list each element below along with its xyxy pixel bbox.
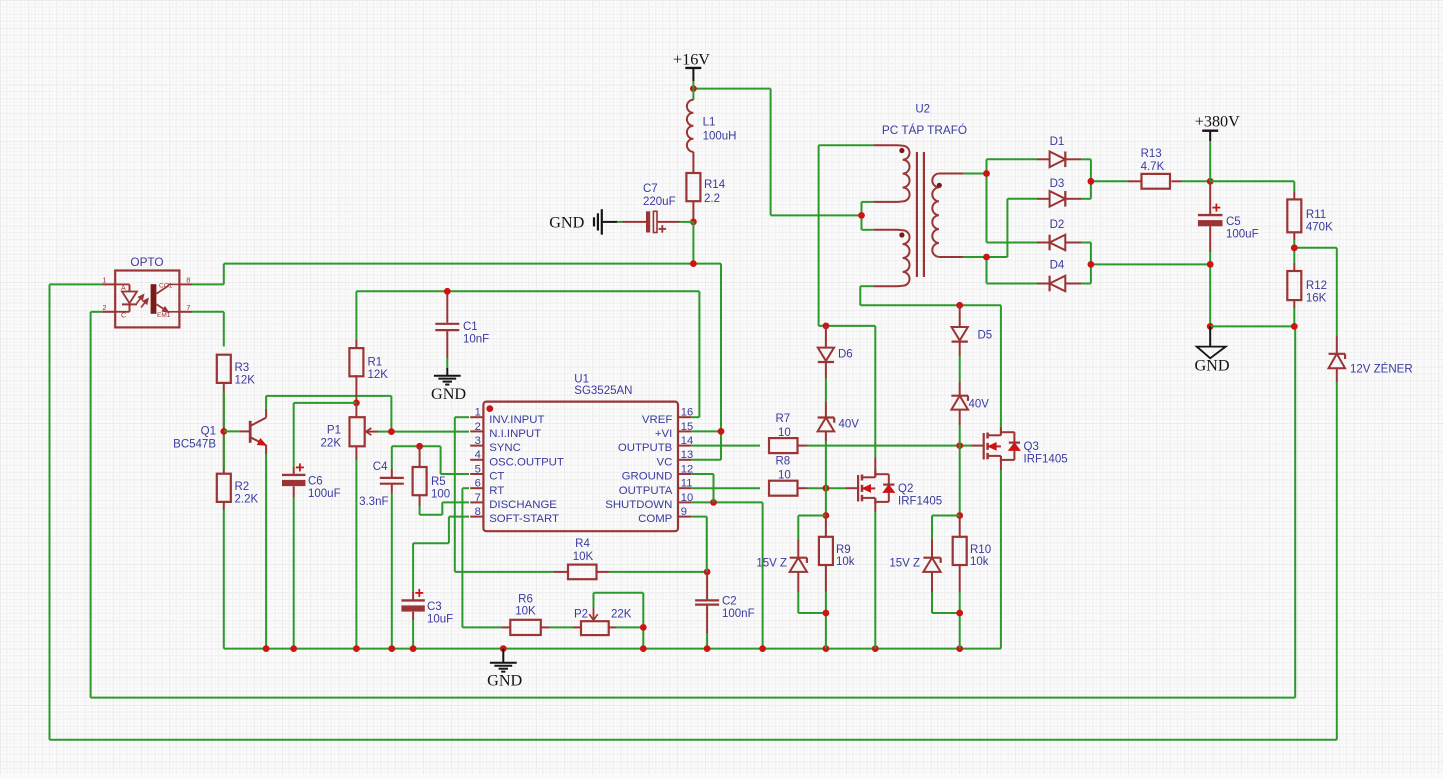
- node +16V: [690, 85, 697, 92]
- transistor Q3 IRF1405: [984, 427, 1068, 465]
- svg-text:OUTPUTA: OUTPUTA: [619, 485, 673, 497]
- capacitor C6: [282, 463, 341, 500]
- wire: [692, 222, 694, 264]
- node P2 right: [640, 624, 647, 631]
- pin 2 N.I.INPUT: [470, 421, 541, 440]
- svg-text:P1: P1: [327, 425, 341, 437]
- svg-text:GND: GND: [431, 385, 466, 403]
- diode D2: [1037, 219, 1081, 250]
- wire: [939, 199, 1037, 284]
- svg-text:2.2: 2.2: [704, 193, 720, 205]
- svg-text:PC TÁP TRAFÓ: PC TÁP TRAFÓ: [882, 123, 967, 137]
- node C5 bottom: [1207, 261, 1214, 268]
- svg-text:+380V: +380V: [1195, 113, 1240, 131]
- svg-text:R12: R12: [1306, 280, 1327, 292]
- svg-text:IRF1405: IRF1405: [898, 496, 942, 508]
- resistor R13: [1128, 148, 1170, 189]
- pin 14 OUTPUTB: [618, 435, 693, 454]
- pin 11 OUTPUTA: [619, 478, 693, 497]
- pin 12 GROUND: [622, 463, 694, 482]
- wire: [798, 487, 859, 489]
- node output gnd: [1207, 323, 1214, 330]
- svg-text:R5: R5: [431, 476, 446, 488]
- pin 6 RT: [470, 478, 504, 497]
- svg-text:A: A: [121, 285, 126, 292]
- svg-text:D4: D4: [1050, 260, 1065, 272]
- svg-text:N.I.INPUT: N.I.INPUT: [489, 428, 541, 440]
- svg-text:R11: R11: [1306, 209, 1326, 221]
- svg-text:DISCHANGE: DISCHANGE: [489, 499, 557, 511]
- svg-text:15V Z: 15V Z: [889, 558, 920, 570]
- resistor R2: [217, 474, 259, 506]
- svg-text:R2: R2: [235, 481, 250, 493]
- svg-text:COMP: COMP: [638, 513, 672, 525]
- wire: [874, 498, 876, 649]
- svg-text:R7: R7: [776, 413, 791, 425]
- svg-text:GROUND: GROUND: [622, 471, 673, 483]
- resistor R11: [1287, 199, 1333, 233]
- wire: [860, 286, 1001, 433]
- svg-text:22K: 22K: [321, 437, 342, 449]
- svg-text:12K: 12K: [235, 375, 256, 387]
- svg-text:10K: 10K: [573, 551, 594, 563]
- resistor R9: [819, 537, 855, 568]
- svg-text:13: 13: [681, 449, 693, 461]
- svg-text:C4: C4: [373, 461, 388, 473]
- svg-text:VREF: VREF: [642, 414, 672, 426]
- wire: [691, 431, 721, 459]
- svg-text:P2: P2: [574, 608, 588, 620]
- wire: [798, 445, 984, 447]
- node wiper: [388, 428, 395, 435]
- svg-text:U1: U1: [574, 373, 589, 385]
- svg-text:12K: 12K: [368, 369, 389, 381]
- diode D4: [1037, 260, 1081, 292]
- power +380V: [1195, 113, 1240, 142]
- pin 7 DISCHANGE: [470, 492, 557, 511]
- svg-text:R14: R14: [704, 179, 726, 191]
- svg-text:GND: GND: [487, 672, 522, 690]
- svg-text:GND: GND: [549, 214, 584, 232]
- svg-text:BC547B: BC547B: [173, 439, 216, 451]
- node R9 bottom: [823, 610, 830, 617]
- wire: [224, 430, 250, 432]
- node C1 top: [444, 288, 451, 295]
- node Q2 gate: [823, 485, 830, 492]
- resistor R7: [769, 413, 798, 453]
- svg-text:Q2: Q2: [898, 483, 913, 495]
- svg-text:5: 5: [475, 463, 481, 475]
- svg-text:40V: 40V: [839, 418, 860, 430]
- wire: [959, 305, 961, 515]
- ground GND C1: [431, 376, 466, 403]
- node +380V: [1207, 178, 1214, 185]
- svg-text:4: 4: [475, 449, 481, 461]
- svg-text:U2: U2: [915, 104, 930, 116]
- wire: [932, 516, 960, 649]
- svg-text:R13: R13: [1141, 148, 1162, 160]
- wire: [355, 446, 357, 648]
- svg-text:GND: GND: [1194, 356, 1229, 374]
- wire: [412, 612, 414, 649]
- capacitor C7: [643, 183, 676, 233]
- wire: [294, 403, 357, 475]
- wire: [691, 430, 721, 432]
- svg-text:100uF: 100uF: [308, 488, 341, 500]
- svg-text:OUTPUTB: OUTPUTB: [618, 442, 672, 454]
- svg-text:Q1: Q1: [201, 426, 216, 438]
- svg-text:EM1: EM1: [157, 312, 171, 319]
- wire: [602, 221, 694, 223]
- svg-text:22K: 22K: [611, 608, 632, 620]
- svg-text:1: 1: [475, 407, 481, 419]
- svg-text:220uF: 220uF: [643, 196, 676, 208]
- capacitor C3: [401, 589, 453, 626]
- svg-text:R8: R8: [776, 455, 791, 467]
- resistor R5: [413, 467, 451, 501]
- svg-text:D5: D5: [978, 330, 993, 342]
- svg-text:7: 7: [186, 303, 190, 312]
- svg-text:470K: 470K: [1306, 222, 1333, 234]
- node bus junctions: [263, 645, 963, 652]
- svg-text:INV.INPUT: INV.INPUT: [489, 414, 544, 426]
- wire: [192, 312, 224, 347]
- wire: [223, 383, 225, 649]
- svg-text:SOFT-START: SOFT-START: [489, 513, 559, 525]
- svg-text:RT: RT: [489, 485, 504, 497]
- svg-text:SYNC: SYNC: [489, 442, 521, 454]
- resistor R3: [217, 355, 255, 387]
- pin 13 VC: [656, 449, 693, 468]
- wire: [192, 264, 721, 432]
- node R4/C2: [704, 569, 711, 576]
- zener 12V ZENER: [1329, 354, 1413, 376]
- node secondary bottom: [983, 254, 990, 261]
- wire: [691, 474, 713, 502]
- svg-text:10uF: 10uF: [427, 614, 453, 626]
- inductor L1: [687, 100, 737, 152]
- wire: [798, 516, 826, 649]
- pin 16 VREF: [642, 407, 693, 426]
- svg-text:C7: C7: [643, 183, 658, 195]
- wire: [692, 81, 694, 222]
- wire: [420, 496, 469, 515]
- wire: [819, 145, 898, 326]
- node R5 top: [416, 443, 423, 450]
- node D5 top: [956, 302, 963, 309]
- diode D6: [818, 348, 853, 362]
- svg-text:2: 2: [475, 421, 481, 433]
- wire: [691, 487, 760, 489]
- svg-text:OPTO: OPTO: [130, 255, 163, 269]
- wire: [862, 202, 899, 230]
- transformer U2: [882, 104, 967, 287]
- node Q3 gate: [956, 442, 963, 449]
- wire: [391, 446, 393, 648]
- wire: [355, 403, 357, 417]
- resistor R10: [953, 537, 991, 568]
- wire: [356, 291, 699, 417]
- power +16V: [673, 50, 710, 81]
- svg-text:8: 8: [186, 276, 190, 285]
- potentiometer P1: [321, 417, 372, 449]
- wire: [1209, 141, 1211, 326]
- wire: [462, 488, 510, 627]
- wire: [265, 445, 267, 648]
- node base Q1: [220, 428, 227, 435]
- svg-text:Q3: Q3: [1024, 441, 1039, 453]
- svg-text:16K: 16K: [1306, 293, 1327, 305]
- svg-text:40V: 40V: [969, 399, 990, 411]
- svg-text:1: 1: [102, 276, 106, 285]
- diode D5: [952, 327, 993, 342]
- svg-text:D2: D2: [1050, 219, 1065, 231]
- pin 10 SHUTDOWN: [605, 492, 693, 511]
- svg-text:IRF1405: IRF1405: [1024, 454, 1068, 466]
- svg-text:C: C: [121, 313, 126, 320]
- svg-text:10: 10: [778, 469, 791, 481]
- svg-text:VC: VC: [656, 456, 672, 468]
- zener 15V Z (right): [889, 558, 940, 572]
- svg-text:D3: D3: [1050, 178, 1065, 190]
- svg-text:10: 10: [778, 427, 791, 439]
- svg-text:D1: D1: [1050, 136, 1065, 148]
- ground GND main: [487, 649, 522, 690]
- capacitor C1: [435, 321, 489, 346]
- svg-text:C2: C2: [722, 596, 737, 608]
- svg-text:L1: L1: [703, 116, 716, 128]
- svg-text:C3: C3: [427, 601, 442, 613]
- node R12 bottom: [1291, 323, 1298, 330]
- wire: [455, 417, 568, 572]
- svg-text:100uF: 100uF: [1226, 229, 1259, 241]
- svg-text:OSC.OUTPUT: OSC.OUTPUT: [489, 456, 564, 468]
- optocoupler OPTO: [102, 255, 192, 328]
- node D6 top: [823, 323, 830, 330]
- svg-text:R10: R10: [970, 544, 991, 556]
- wire: [1081, 159, 1128, 199]
- resistor R8: [769, 455, 798, 495]
- svg-text:100uH: 100uH: [703, 130, 737, 142]
- capacitor C5: [1198, 204, 1259, 241]
- ground GND output: [1194, 326, 1229, 374]
- svg-text:+VI: +VI: [655, 428, 672, 440]
- resistor R14: [686, 173, 725, 205]
- svg-text:2.2K: 2.2K: [235, 494, 259, 506]
- wire: [1172, 180, 1211, 182]
- pin 4 OSC.OUTPUT: [470, 449, 564, 468]
- svg-text:R6: R6: [518, 593, 533, 605]
- svg-text:3.3nF: 3.3nF: [359, 496, 388, 508]
- node D2/D4 out: [1088, 261, 1095, 268]
- wire: [1000, 456, 1002, 649]
- zener 15V Z (left): [756, 558, 807, 572]
- ground GND C7: [549, 209, 602, 234]
- svg-text:C1: C1: [463, 321, 478, 333]
- svg-text:R3: R3: [235, 362, 250, 374]
- wire: [1081, 243, 1210, 284]
- wire: [413, 517, 469, 601]
- wire: [874, 326, 876, 477]
- svg-text:10: 10: [681, 492, 693, 504]
- wire: [293, 486, 295, 648]
- svg-text:10k: 10k: [970, 556, 989, 568]
- node secondary top: [983, 170, 990, 177]
- wire: [446, 291, 448, 322]
- wire: [691, 502, 762, 648]
- svg-text:R9: R9: [836, 544, 851, 556]
- wire: [706, 572, 708, 649]
- wire: [50, 284, 1337, 739]
- capacitor C4: [359, 461, 404, 508]
- node C7/R14: [690, 219, 697, 226]
- svg-text:3: 3: [475, 435, 481, 447]
- svg-text:10nF: 10nF: [463, 334, 489, 346]
- svg-text:16: 16: [681, 407, 693, 419]
- node center tap: [858, 212, 865, 219]
- node +VI: [718, 428, 725, 435]
- wire: [594, 593, 644, 649]
- wire: [1210, 300, 1294, 326]
- wire: [446, 331, 448, 376]
- resistor R12: [1287, 271, 1327, 305]
- svg-text:8: 8: [475, 506, 481, 518]
- transistor Q1: [173, 418, 266, 451]
- ic U1 SG3525AN: [483, 373, 678, 531]
- zener 40V (Q2): [818, 418, 860, 432]
- wire: [392, 446, 469, 474]
- wire: [1294, 232, 1337, 382]
- node shutdown: [710, 499, 717, 506]
- pin 9 COMP: [638, 506, 691, 525]
- svg-text:9: 9: [681, 506, 687, 518]
- wire: [355, 375, 357, 403]
- svg-text:12V ZÉNER: 12V ZÉNER: [1350, 362, 1413, 375]
- pin 8 SOFT-START: [470, 506, 559, 525]
- pin 5 CT: [470, 463, 504, 482]
- wire: [224, 648, 1001, 650]
- wire: [1210, 181, 1294, 199]
- node R11/R12: [1291, 244, 1298, 251]
- pin 3 SYNC: [470, 435, 521, 454]
- svg-text:4.7K: 4.7K: [1141, 161, 1165, 173]
- wire: [366, 431, 469, 433]
- node R10 top: [956, 512, 963, 519]
- svg-text:10K: 10K: [515, 606, 536, 618]
- node P1 top: [353, 400, 360, 407]
- svg-text:15V Z: 15V Z: [756, 558, 787, 570]
- svg-text:CO1: CO1: [159, 282, 173, 289]
- svg-text:100nF: 100nF: [722, 608, 755, 620]
- resistor R6: [510, 593, 541, 635]
- node R9 top: [823, 512, 830, 519]
- node R10 bottom: [956, 610, 963, 617]
- svg-text:C5: C5: [1226, 216, 1241, 228]
- wire: [825, 326, 827, 516]
- svg-text:10k: 10k: [836, 556, 855, 568]
- svg-text:R1: R1: [368, 356, 383, 368]
- pin 15 +VI: [655, 421, 693, 440]
- node pin1 mark: [486, 405, 493, 412]
- diode D1: [1037, 136, 1081, 167]
- wire: [691, 517, 707, 572]
- svg-text:15: 15: [681, 421, 693, 433]
- diode D3: [1037, 178, 1081, 207]
- svg-text:11: 11: [681, 478, 693, 490]
- potentiometer P2: [574, 607, 632, 635]
- svg-text:SG3525AN: SG3525AN: [574, 385, 632, 397]
- wire: [91, 312, 1296, 698]
- node top rail: [690, 260, 697, 267]
- svg-text:C6: C6: [308, 476, 323, 488]
- svg-text:CT: CT: [489, 471, 504, 483]
- capacitor C2: [695, 596, 755, 621]
- svg-text:100: 100: [431, 489, 450, 501]
- svg-text:R4: R4: [575, 538, 590, 550]
- wire: [693, 89, 861, 216]
- wire: [266, 396, 391, 432]
- node D1/D3 out: [1088, 178, 1095, 185]
- wire: [691, 445, 760, 447]
- pin 1 INV.INPUT: [470, 407, 544, 426]
- svg-text:+16V: +16V: [673, 50, 710, 68]
- svg-text:SHUTDOWN: SHUTDOWN: [605, 499, 672, 511]
- svg-text:14: 14: [681, 435, 693, 447]
- wire: [1000, 434, 1002, 436]
- transistor Q2 IRF1405: [858, 469, 942, 507]
- svg-text:7: 7: [475, 492, 481, 504]
- resistor R1: [349, 348, 388, 381]
- svg-text:2: 2: [102, 303, 106, 312]
- svg-text:12: 12: [681, 463, 693, 475]
- svg-text:6: 6: [475, 478, 481, 490]
- wire: [597, 571, 708, 573]
- zener 40V (Q3): [951, 396, 989, 411]
- wire: [541, 626, 581, 628]
- wire: [939, 159, 1037, 242]
- svg-text:D6: D6: [838, 349, 853, 361]
- resistor R4: [568, 538, 597, 579]
- wire: [419, 446, 421, 467]
